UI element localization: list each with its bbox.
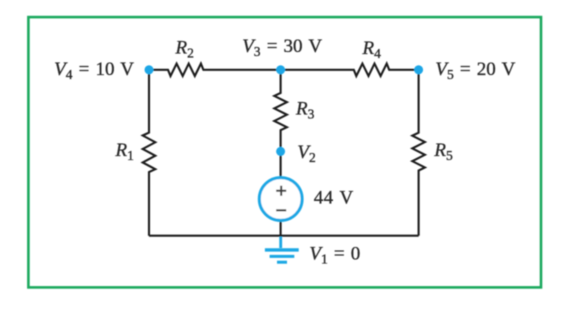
svg-text:44 V: 44 V: [314, 188, 354, 209]
svg-text:V1 = 0: V1 = 0: [309, 244, 360, 267]
